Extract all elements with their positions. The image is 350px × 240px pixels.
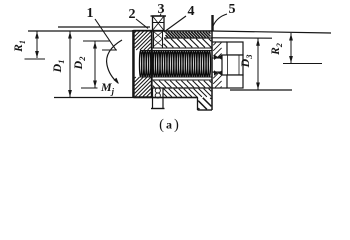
dimension D1 line bbox=[68, 31, 72, 98]
wire left shaft outer top line bbox=[28, 30, 152, 32]
barrel bottom line bbox=[134, 97, 199, 99]
svg-text:R1: R1 bbox=[13, 40, 27, 53]
hatch left flange lower bbox=[135, 77, 151, 97]
svg-text:1: 1 bbox=[87, 6, 94, 21]
bottom lug bbox=[198, 98, 213, 111]
wire right center line bbox=[283, 63, 322, 65]
pin part 5 bbox=[211, 15, 213, 31]
nut middle section bbox=[222, 55, 243, 75]
small gap arrows top bbox=[214, 54, 222, 60]
barrel right edge bbox=[211, 31, 213, 110]
leader line part 1 bbox=[95, 19, 116, 50]
hatch neck bottom wall bbox=[213, 73, 221, 88]
dimension R2 line bbox=[289, 33, 293, 64]
hatch bottom lug bbox=[198, 98, 211, 110]
hatch barrel lower wall upper band bbox=[153, 81, 212, 88]
leader tick part 1 bbox=[102, 49, 117, 51]
barrel cavity bottom line bbox=[152, 79, 212, 81]
nut inner lines bbox=[228, 55, 240, 75]
svg-text:2: 2 bbox=[129, 7, 136, 22]
svg-text:Mj: Mj bbox=[100, 80, 115, 96]
bolt 3 shank bbox=[154, 31, 163, 48]
leader line part 2 bbox=[136, 19, 148, 29]
hatch left flange upper bbox=[135, 31, 151, 50]
left flange right edge bbox=[151, 31, 153, 98]
wire right shaft bottom line bbox=[230, 89, 292, 91]
barrel lower mid line bbox=[152, 87, 212, 89]
hatch neck top wall bbox=[213, 43, 221, 58]
small gap arrows bottom bbox=[214, 70, 222, 76]
svg-text:D1: D1 bbox=[50, 60, 66, 74]
spring top edge bbox=[141, 50, 212, 52]
barrel cavity top line bbox=[152, 47, 212, 49]
svg-text:R2: R2 bbox=[270, 43, 284, 56]
wire top line over neck to right bbox=[212, 31, 331, 33]
spring coil bbox=[139, 51, 210, 78]
nut top section bbox=[227, 42, 243, 55]
hatch barrel upper wall bbox=[164, 39, 212, 48]
bolt 3 top head bbox=[151, 16, 167, 31]
leader tick part 3 bbox=[160, 14, 161, 17]
leader line part 5 bbox=[213, 14, 227, 26]
svg-text:5: 5 bbox=[229, 2, 236, 17]
left flange body part 2 bbox=[133, 30, 151, 97]
neck bottom wall bbox=[213, 72, 228, 88]
barrel cap line bbox=[164, 37, 212, 39]
wire left shaft bottom line bbox=[54, 97, 198, 99]
spring bottom edge bbox=[141, 76, 212, 78]
bolt bottom body bbox=[151, 88, 165, 109]
nut bottom section bbox=[227, 75, 243, 88]
svg-text:4: 4 bbox=[188, 4, 195, 19]
torque arc Mj bbox=[107, 40, 122, 83]
dimension D3 line bbox=[256, 38, 260, 90]
hatch cap band part 4 bbox=[166, 32, 211, 38]
wire left shaft inner top line bbox=[58, 26, 150, 28]
svg-text:D2: D2 bbox=[71, 56, 87, 71]
dimension R1 line bbox=[25, 31, 46, 59]
leader line part 4 bbox=[164, 16, 186, 32]
neck top wall bbox=[213, 42, 228, 58]
barrel top outer line bbox=[150, 30, 212, 32]
hatch barrel lower wall lower band bbox=[164, 89, 212, 97]
wire right shaft top inner line bbox=[213, 37, 273, 39]
svg-text:(a): (a) bbox=[159, 117, 179, 133]
dimension D2 line bbox=[81, 41, 110, 88]
